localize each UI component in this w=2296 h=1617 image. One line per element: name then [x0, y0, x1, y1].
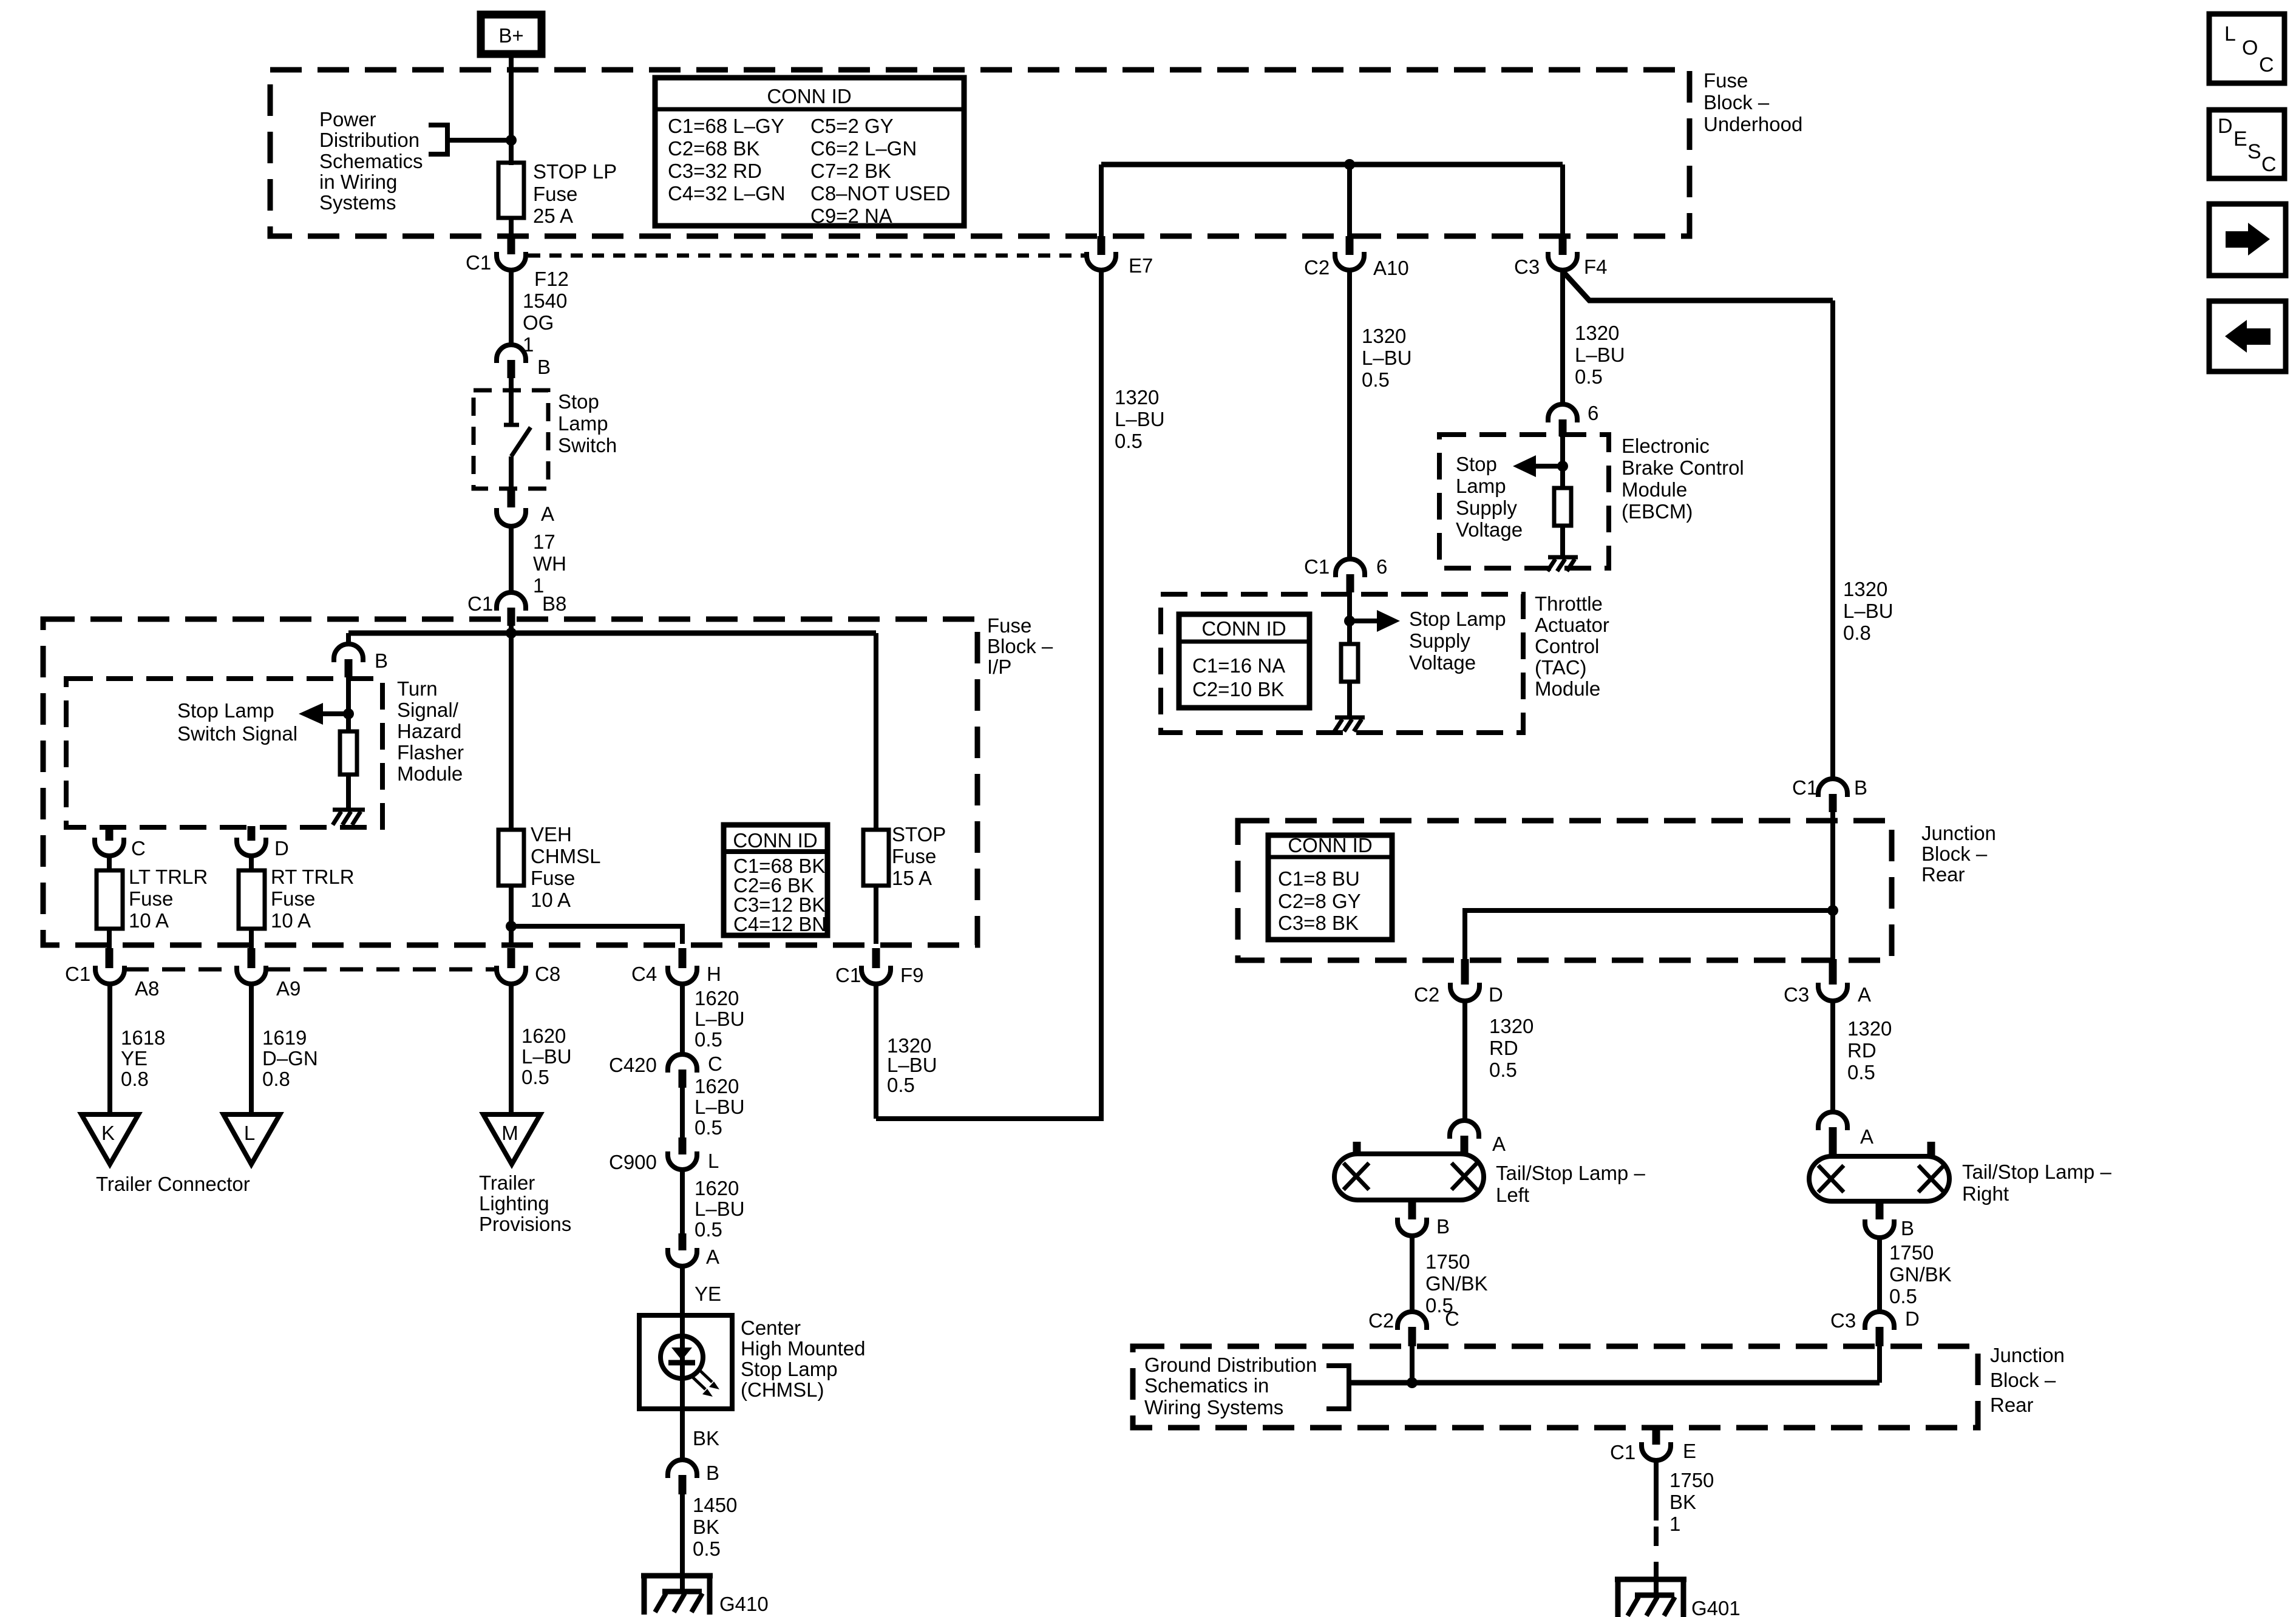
svg-text:L–BU: L–BU	[695, 1198, 745, 1220]
wire 1540 OG 1 below C1 F12	[511, 270, 567, 356]
junction dot at B+ wire	[506, 135, 517, 146]
Junction Block Rear upper label	[1921, 822, 1996, 886]
connector pin A9	[237, 966, 301, 1000]
connector E7	[1087, 252, 1153, 277]
svg-text:C: C	[708, 1053, 722, 1075]
wire inside EBCM	[1560, 436, 1565, 488]
svg-text:RD: RD	[1847, 1039, 1877, 1062]
svg-text:0.8: 0.8	[262, 1068, 290, 1090]
svg-text:B8: B8	[542, 592, 566, 615]
svg-text:A: A	[706, 1246, 719, 1268]
Throttle Actuator Control TAC module dashed box	[1161, 594, 1523, 733]
svg-text:B+: B+	[498, 24, 523, 47]
wire to TAC ground	[1347, 682, 1352, 716]
C8 stub	[508, 948, 515, 968]
svg-text:0.5: 0.5	[695, 1218, 722, 1241]
Stop Lamp Switch label	[558, 390, 617, 456]
wire inside TAC	[1347, 592, 1352, 644]
svg-text:Rear: Rear	[1990, 1394, 2034, 1416]
svg-text:Power: Power	[319, 108, 376, 131]
connector C1 pin F9	[835, 964, 924, 986]
svg-text:Tail/Stop Lamp –: Tail/Stop Lamp –	[1496, 1162, 1645, 1184]
connector C1 pin F12	[466, 251, 569, 290]
connector C2 pin C	[1368, 1307, 1459, 1346]
bus wire inside I/P fuse block	[348, 631, 876, 636]
wire 1320 L-BU 0.5 A10 to TAC	[1350, 270, 1412, 559]
svg-text:Fuse: Fuse	[892, 845, 936, 867]
svg-text:Actuator: Actuator	[1535, 614, 1609, 636]
LOC navigation box	[2209, 14, 2284, 83]
wire branch to C4 H	[511, 926, 682, 944]
svg-text:1620: 1620	[695, 987, 739, 1009]
connector B stop lamp switch	[497, 345, 551, 378]
svg-text:C3: C3	[1830, 1309, 1856, 1332]
lamp left pin B stub	[1408, 1200, 1416, 1219]
svg-text:1750: 1750	[1425, 1250, 1470, 1273]
svg-text:High Mounted: High Mounted	[741, 1337, 865, 1360]
svg-text:Junction: Junction	[1921, 822, 1996, 844]
svg-text:B: B	[375, 649, 388, 672]
wire 1620 L-BU 0.5 below C900	[682, 1170, 745, 1241]
wire B+ down to STOP LP fuse	[509, 58, 514, 165]
wire STOP fuse feed	[874, 633, 878, 830]
svg-text:C6=2 L–GN: C6=2 L–GN	[810, 137, 917, 160]
svg-text:0.5: 0.5	[887, 1074, 915, 1096]
svg-text:Underhood: Underhood	[1703, 113, 1802, 135]
svg-text:L–BU: L–BU	[1115, 408, 1165, 430]
svg-text:C: C	[2261, 153, 2277, 176]
svg-text:C900: C900	[609, 1151, 657, 1173]
svg-text:Left: Left	[1496, 1184, 1529, 1206]
svg-text:Wiring Systems: Wiring Systems	[1144, 1396, 1283, 1419]
svg-text:B: B	[706, 1462, 719, 1484]
svg-text:Stop: Stop	[558, 390, 599, 413]
svg-text:C2: C2	[1414, 983, 1439, 1006]
wire junction block branch to C2 D	[1465, 910, 1833, 959]
fuse STOP LP 25A	[498, 160, 617, 227]
svg-text:0.8: 0.8	[1843, 622, 1871, 644]
C900 stub	[679, 1137, 687, 1154]
A10 stub	[1346, 236, 1354, 255]
DESC navigation box	[2209, 110, 2284, 178]
svg-text:STOP: STOP	[892, 823, 946, 846]
resistor TAC	[1341, 644, 1358, 682]
wire bus to E7	[1099, 164, 1104, 238]
svg-text:Fuse: Fuse	[987, 614, 1031, 637]
wire B8 into fuse block	[509, 625, 514, 633]
svg-text:Lamp: Lamp	[558, 412, 608, 435]
wire 1320 RD 0.5 right	[1833, 1001, 1892, 1112]
svg-text:M: M	[501, 1122, 518, 1144]
svg-text:in Wiring: in Wiring	[319, 171, 397, 193]
svg-text:1320: 1320	[1362, 325, 1406, 347]
svg-text:CONN ID: CONN ID	[1288, 834, 1372, 856]
wire 1450 BK 0.5	[682, 1494, 737, 1576]
CHMSL connector A stub	[679, 1233, 687, 1250]
svg-text:C2: C2	[1304, 256, 1330, 279]
flasher pin D stub	[248, 826, 256, 841]
svg-text:1450: 1450	[693, 1494, 737, 1516]
svg-text:B: B	[1436, 1215, 1450, 1238]
Tail Stop Lamp Left label	[1496, 1162, 1645, 1206]
svg-text:Supply: Supply	[1456, 497, 1517, 519]
svg-text:C8–NOT USED: C8–NOT USED	[810, 182, 950, 205]
svg-text:Fuse: Fuse	[1703, 69, 1748, 92]
svg-text:Junction: Junction	[1990, 1344, 2065, 1366]
svg-text:WH: WH	[533, 552, 566, 575]
svg-text:L–BU: L–BU	[695, 1096, 745, 1118]
svg-text:L: L	[2224, 22, 2236, 46]
connector C420 pin C	[609, 1053, 722, 1088]
Junction Block Rear lower label	[1990, 1344, 2065, 1416]
svg-text:G410: G410	[719, 1593, 769, 1615]
svg-text:LT TRLR: LT TRLR	[129, 866, 208, 888]
junction dot CHMSL branch	[506, 921, 517, 932]
wire to LT TRLR fuse	[107, 856, 112, 870]
C4 H stub	[679, 948, 687, 968]
Stop Lamp Switch Signal label	[177, 699, 297, 745]
Turn Signal Hazard Flasher Module label	[397, 677, 464, 785]
junction dot EBCM	[1557, 461, 1568, 472]
C2 D stub	[1461, 959, 1469, 985]
svg-text:Turn: Turn	[397, 677, 438, 700]
svg-text:L–BU: L–BU	[695, 1008, 745, 1030]
svg-text:1320: 1320	[1575, 322, 1619, 344]
svg-text:A: A	[1860, 1125, 1873, 1148]
svg-text:RD: RD	[1489, 1037, 1518, 1059]
wire 1320 L-BU 0.8 riser label	[1843, 578, 1894, 644]
switch blade	[511, 427, 531, 456]
wire 1619 D-GN 0.8	[251, 984, 318, 1113]
wire 1620 L-BU 0.5 below H	[682, 984, 745, 1054]
svg-text:C1: C1	[1304, 555, 1330, 578]
svg-text:10 A: 10 A	[129, 909, 169, 932]
CONN ID table junction block rear	[1268, 834, 1392, 940]
svg-text:C5=2 GY: C5=2 GY	[810, 115, 894, 137]
svg-text:L: L	[708, 1150, 719, 1172]
bracket from Power Distribution note to wire	[429, 125, 511, 154]
svg-text:6: 6	[1376, 555, 1387, 578]
svg-text:(EBCM): (EBCM)	[1622, 500, 1693, 523]
svg-text:D: D	[1905, 1307, 1920, 1330]
svg-text:YE: YE	[121, 1047, 148, 1070]
svg-text:C1=16 NA: C1=16 NA	[1192, 654, 1285, 677]
svg-text:I/P: I/P	[987, 656, 1011, 678]
wire 1320 L-BU 0.5 E7 riser label	[1115, 386, 1165, 452]
svg-text:Module: Module	[1535, 677, 1600, 700]
connector B CHMSL	[668, 1460, 719, 1494]
wire 1620 L-BU 0.5 below C420	[682, 1075, 745, 1139]
svg-text:L: L	[244, 1122, 255, 1144]
svg-text:O: O	[2242, 36, 2258, 59]
connector C2 pin D	[1414, 983, 1503, 1006]
switch top contact wire	[509, 378, 514, 424]
svg-text:A9: A9	[276, 977, 301, 1000]
svg-text:OG: OG	[523, 311, 554, 334]
wire F4 branch to junction block riser	[1564, 273, 1833, 300]
svg-text:C1: C1	[1792, 776, 1818, 799]
svg-text:C3=8 BK: C3=8 BK	[1278, 912, 1359, 934]
svg-text:Block –: Block –	[1990, 1369, 2056, 1391]
Electronic Brake Control Module EBCM dashed box	[1439, 435, 1609, 568]
svg-text:A10: A10	[1373, 257, 1409, 279]
svg-text:C: C	[1445, 1307, 1459, 1330]
svg-text:Switch Signal: Switch Signal	[177, 722, 297, 745]
svg-text:Fuse: Fuse	[533, 183, 577, 205]
F4 stub	[1559, 236, 1567, 255]
svg-text:Hazard: Hazard	[397, 720, 461, 742]
arrow Stop Lamp Supply Voltage TAC	[1350, 610, 1400, 632]
svg-text:C1: C1	[467, 592, 493, 615]
svg-text:STOP LP: STOP LP	[533, 160, 617, 183]
connector D flasher output	[237, 837, 289, 859]
CHMSL light emission arrows	[693, 1370, 719, 1397]
svg-text:Stop: Stop	[1456, 453, 1497, 475]
svg-text:Signal/: Signal/	[397, 699, 459, 721]
connector C1 pin B8	[467, 592, 566, 626]
left arrow navigation box	[2209, 301, 2286, 371]
svg-text:1750: 1750	[1669, 1469, 1714, 1491]
fuse LT TRLR 10A	[97, 866, 208, 932]
svg-text:Stop Lamp: Stop Lamp	[177, 699, 274, 722]
svg-text:0.5: 0.5	[1847, 1061, 1875, 1083]
wire bus to VEH CHMSL fuse	[509, 633, 514, 830]
junction dot bus A10	[1344, 159, 1355, 170]
connector C flasher output	[95, 837, 146, 859]
resistor flasher module	[340, 731, 357, 775]
svg-text:BK: BK	[1669, 1491, 1696, 1513]
connector B flasher module	[334, 644, 388, 677]
wire into flasher module	[346, 677, 351, 731]
wire resistor to ground	[346, 775, 351, 808]
LT TRLR fuse output stub	[106, 948, 114, 968]
svg-text:17: 17	[533, 531, 555, 553]
connector A tail stop lamp left	[1450, 1120, 1506, 1155]
svg-text:E: E	[1683, 1440, 1696, 1462]
svg-text:C4=12 BN: C4=12 BN	[733, 913, 826, 935]
bus wire inside underhood fuse block	[1101, 162, 1563, 168]
svg-text:C1=68 L–GY: C1=68 L–GY	[668, 115, 784, 137]
tail stop lamp right bulb	[1809, 1142, 1949, 1201]
CONN ID table TAC	[1179, 614, 1309, 708]
E7 stub	[1098, 236, 1106, 255]
terminal triangle K	[81, 1114, 138, 1164]
svg-text:C7=2 BK: C7=2 BK	[810, 160, 891, 182]
svg-text:0.5: 0.5	[695, 1028, 722, 1051]
B+ battery terminal box	[481, 15, 542, 54]
svg-text:G401: G401	[1691, 1597, 1741, 1617]
TAC module label	[1535, 592, 1609, 700]
wire bus left branch down	[346, 633, 351, 645]
svg-text:A: A	[1858, 983, 1871, 1006]
svg-text:C2=8 GY: C2=8 GY	[1278, 890, 1361, 912]
svg-text:Provisions: Provisions	[479, 1213, 571, 1235]
svg-text:C1: C1	[835, 964, 861, 986]
svg-text:0.5: 0.5	[1362, 368, 1390, 391]
svg-text:D: D	[274, 837, 289, 859]
svg-text:L–BU: L–BU	[1362, 347, 1412, 369]
C1 E stub	[1652, 1428, 1660, 1445]
connector C3 pin D	[1830, 1307, 1920, 1346]
fuse VEH CHMSL 10A	[498, 823, 601, 911]
wire 1750 BK 1	[1656, 1460, 1714, 1535]
Stop Lamp Switch dashed box	[474, 390, 548, 489]
connector C3 pin A	[1784, 983, 1871, 1006]
svg-text:15 A: 15 A	[892, 867, 932, 889]
svg-text:H: H	[707, 963, 721, 985]
wire 1620 L-BU 0.5 below C8	[511, 984, 572, 1113]
svg-text:GN/BK: GN/BK	[1889, 1263, 1952, 1286]
Power Distribution reference note	[319, 108, 423, 214]
svg-text:CONN ID: CONN ID	[767, 85, 851, 107]
svg-text:10 A: 10 A	[271, 909, 311, 932]
bracket from Ground Distribution note	[1326, 1366, 1349, 1409]
svg-text:A8: A8	[135, 977, 159, 1000]
svg-text:C9=2 NA: C9=2 NA	[810, 205, 892, 227]
svg-text:1320: 1320	[1489, 1015, 1533, 1037]
svg-text:B: B	[1901, 1217, 1914, 1239]
svg-text:K: K	[101, 1122, 115, 1144]
svg-text:L–BU: L–BU	[887, 1054, 937, 1076]
svg-text:F4: F4	[1584, 256, 1608, 278]
svg-text:D: D	[2218, 115, 2233, 138]
wire fuse to connector C1 F12	[509, 218, 514, 238]
svg-text:BK: BK	[693, 1516, 719, 1538]
connector face dashed line A9 to C8	[267, 968, 495, 972]
Center High Mounted Stop Lamp CHMSL box	[639, 1315, 732, 1409]
wire 1750 GN/BK 0.5 left	[1412, 1236, 1488, 1317]
svg-text:1620: 1620	[695, 1075, 739, 1097]
svg-text:1620: 1620	[695, 1177, 739, 1199]
svg-text:C1=8 BU: C1=8 BU	[1278, 867, 1360, 890]
svg-text:Trailer Connector: Trailer Connector	[96, 1173, 250, 1195]
C3 A stub	[1829, 959, 1837, 985]
svg-text:Module: Module	[397, 762, 463, 785]
svg-text:B: B	[1854, 776, 1867, 799]
svg-text:C4=32 L–GN: C4=32 L–GN	[668, 182, 786, 205]
wire riser down to C1 B	[1830, 300, 1835, 779]
svg-text:Control: Control	[1535, 635, 1599, 657]
Fuse Block Underhood dashed box	[270, 70, 1690, 236]
svg-text:C3=32 RD: C3=32 RD	[668, 160, 762, 182]
arrow Stop Lamp Switch Signal	[299, 703, 348, 725]
Junction Block Rear upper dashed box	[1238, 821, 1892, 960]
svg-text:(CHMSL): (CHMSL)	[741, 1378, 824, 1401]
svg-text:1540: 1540	[523, 290, 567, 312]
svg-text:BK: BK	[693, 1427, 719, 1449]
svg-text:C8: C8	[535, 963, 560, 985]
svg-text:Stop Lamp: Stop Lamp	[1409, 608, 1506, 630]
svg-text:C3: C3	[1784, 983, 1809, 1006]
connector C1 pin E	[1610, 1440, 1696, 1463]
svg-text:B: B	[537, 356, 551, 378]
connector C1 pin 6 TAC	[1304, 555, 1387, 592]
resistor EBCM	[1554, 488, 1571, 526]
Trailer Lighting Provisions label	[479, 1171, 571, 1235]
svg-text:Right: Right	[1962, 1182, 2009, 1205]
svg-text:1: 1	[1669, 1513, 1680, 1535]
Ground Distribution reference note	[1144, 1354, 1317, 1419]
connector face dashed line A8 to A9	[126, 968, 237, 972]
wire F9 run to E7 riser	[876, 270, 1101, 1119]
svg-text:C: C	[131, 837, 146, 859]
svg-text:VEH: VEH	[531, 823, 572, 846]
connector C3 pin F4	[1514, 252, 1608, 278]
svg-text:1320: 1320	[1843, 578, 1887, 600]
svg-text:L–BU: L–BU	[1843, 600, 1894, 622]
Turn Signal Hazard Flasher Module dashed box	[66, 679, 382, 827]
svg-text:Stop Lamp: Stop Lamp	[741, 1358, 838, 1380]
svg-text:1750: 1750	[1889, 1241, 1934, 1264]
junction dot flasher	[343, 708, 354, 719]
svg-text:Schematics in: Schematics in	[1144, 1374, 1269, 1397]
svg-text:C1: C1	[65, 963, 90, 985]
svg-text:L–BU: L–BU	[521, 1045, 572, 1068]
svg-text:C2=68 BK: C2=68 BK	[668, 137, 759, 160]
svg-text:A: A	[541, 503, 554, 525]
wire LT TRLR fuse down	[107, 929, 112, 951]
wire bus to A10	[1347, 164, 1352, 238]
junction dot junction block	[1827, 905, 1838, 916]
svg-text:Distribution: Distribution	[319, 129, 419, 151]
svg-text:Lamp: Lamp	[1456, 475, 1506, 497]
svg-text:0.5: 0.5	[1489, 1059, 1517, 1081]
connector A below switch	[497, 503, 554, 526]
svg-text:F9: F9	[900, 964, 924, 986]
svg-text:D–GN: D–GN	[262, 1047, 318, 1070]
connector B tail stop lamp right	[1865, 1217, 1914, 1239]
svg-text:Voltage: Voltage	[1456, 518, 1523, 541]
tail stop lamp left bulb	[1334, 1142, 1484, 1200]
svg-text:Switch: Switch	[558, 434, 617, 456]
svg-text:Electronic: Electronic	[1622, 435, 1710, 457]
junction dot on bus	[506, 628, 517, 639]
svg-text:C3: C3	[1514, 256, 1540, 278]
CONN ID table underhood	[655, 78, 964, 227]
svg-text:S: S	[2247, 140, 2261, 163]
svg-text:C: C	[2259, 53, 2274, 76]
fuse RT TRLR 10A	[239, 866, 355, 932]
ground flasher module	[333, 810, 365, 825]
ground EBCM internal	[1547, 557, 1578, 571]
wire 1320 L-BU 0.5 from F9	[876, 984, 937, 1119]
right arrow navigation box	[2209, 204, 2286, 276]
wire YE into CHMSL	[682, 1266, 721, 1317]
svg-text:D: D	[1489, 983, 1503, 1006]
svg-text:CONN ID: CONN ID	[1201, 617, 1286, 640]
svg-text:Schematics: Schematics	[319, 150, 423, 172]
svg-text:Block –: Block –	[1921, 842, 1988, 865]
svg-text:Module: Module	[1622, 478, 1687, 501]
junction dot ground bus	[1407, 1377, 1418, 1388]
svg-text:C4: C4	[631, 963, 657, 985]
wire to EBCM ground	[1560, 526, 1565, 556]
svg-text:CONN ID: CONN ID	[733, 829, 817, 852]
svg-text:Block –: Block –	[1703, 91, 1770, 114]
arrow Stop Lamp Supply Voltage EBCM	[1513, 455, 1563, 477]
svg-text:0.5: 0.5	[1575, 365, 1603, 388]
ground G410	[641, 1576, 769, 1615]
svg-text:Tail/Stop Lamp –: Tail/Stop Lamp –	[1962, 1161, 2111, 1183]
Center High Mounted Stop Lamp label	[741, 1317, 865, 1401]
svg-text:L–BU: L–BU	[1575, 344, 1625, 366]
svg-text:Throttle: Throttle	[1535, 592, 1603, 615]
svg-text:A: A	[1492, 1133, 1506, 1155]
terminal triangle M	[483, 1114, 540, 1164]
wire C3 D into lower junction block	[1877, 1346, 1882, 1383]
wire BK below CHMSL	[682, 1405, 719, 1460]
svg-text:CHMSL: CHMSL	[531, 845, 601, 867]
